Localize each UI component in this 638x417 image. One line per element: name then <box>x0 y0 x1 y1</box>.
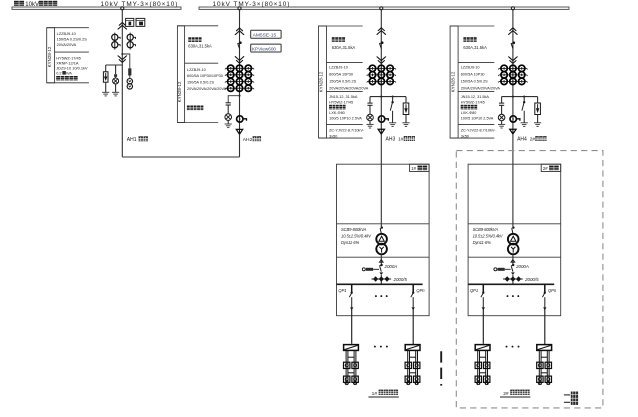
wire: AH3 down to unit box <box>380 134 382 164</box>
meter box 1 (voltmeter) <box>126 18 134 26</box>
label: phase 2 <box>564 394 570 396</box>
plug sockets <box>405 362 411 368</box>
svg-text:100/5 10P10 2.5VA: 100/5 10P10 2.5VA <box>461 117 494 121</box>
transformer T (T3) SCB9-800kVA <box>376 234 387 255</box>
LV busbar 0.4kV <box>337 283 423 285</box>
svg-text:AH2: AH2 <box>243 137 253 143</box>
fuse + indicator lamp branch <box>115 65 117 74</box>
node: bus2 tap for AH4 <box>511 7 514 10</box>
current transformers CT grid 3x4 AH2 <box>226 65 254 71</box>
node: bus2 tap for AH3 <box>380 7 383 10</box>
svg-text:QP1: QP1 <box>470 288 478 293</box>
bottom wheels <box>538 382 541 385</box>
svg-text:LXK-Φ80: LXK-Φ80 <box>461 111 477 115</box>
current transformers CT grid 3x3 AH3 <box>368 65 396 71</box>
wire: left branch AH2 <box>228 96 239 103</box>
LV drawout contact down <box>511 272 515 275</box>
operator attachment <box>362 268 365 271</box>
svg-text:150/5A 0.5/0.2S: 150/5A 0.5/0.2S <box>187 81 214 85</box>
indicator lamp AH2 <box>225 114 232 121</box>
tie bars <box>480 356 486 358</box>
svg-text:10kV TMY-3×(80×10): 10kV TMY-3×(80×10) <box>213 1 291 8</box>
wire: lower branch bar AH4 <box>502 96 538 98</box>
svg-text:KYN28-12: KYN28-12 <box>177 81 182 102</box>
svg-text:KPView600: KPView600 <box>252 46 277 51</box>
node: bus2 tap for AH2 <box>238 7 241 10</box>
LV feeder QPn <box>412 284 414 292</box>
drawout contact upper AH2 <box>235 28 244 35</box>
svg-text:630A,31.5kA: 630A,31.5kA <box>188 43 212 48</box>
capacitor (live-line indicator) AH3 <box>369 97 371 103</box>
current transformers CT grid 3x3 AH4 <box>499 65 527 71</box>
circuit breaker QF (AH4) <box>513 41 516 44</box>
divider (transformer section) <box>337 223 430 225</box>
divider (transformer section) <box>468 223 561 225</box>
tie bars <box>410 356 416 358</box>
svg-text:JN15-12, 31.5kA: JN15-12, 31.5kA <box>461 95 490 99</box>
spec box AH3 (KYN28-12) <box>319 26 327 138</box>
drawout contact upper AH3 <box>377 28 386 35</box>
svg-text:1#: 1# <box>411 166 416 171</box>
drawout contact (upper) AH1 <box>118 23 127 30</box>
svg-text:2#: 2# <box>543 166 548 171</box>
drawout contact (lower) AH1 <box>118 56 127 63</box>
svg-text:ZC-YJV22-8.7/10kV-: ZC-YJV22-8.7/10kV- <box>461 128 497 132</box>
surge arrester FV1 <box>105 65 107 72</box>
dots (more loads unit1) <box>374 346 376 348</box>
svg-text:3x50: 3x50 <box>329 134 337 138</box>
svg-text:Dyn11-6%: Dyn11-6% <box>473 240 492 245</box>
LV CTs 2000/5 <box>373 276 390 281</box>
dots (more feeders) <box>507 295 509 297</box>
svg-text:2000A: 2000A <box>384 264 398 269</box>
svg-text:2#: 2# <box>530 137 536 143</box>
load riser columns <box>478 350 488 384</box>
svg-text:KYN28-12: KYN28-12 <box>319 71 324 92</box>
svg-text:630A,31.5kA: 630A,31.5kA <box>332 45 356 50</box>
svg-text:LZZBJ9-10: LZZBJ9-10 <box>329 66 348 70</box>
load riser columns <box>408 350 418 384</box>
bottom wheels <box>345 382 348 385</box>
LV main breaker 2000A <box>512 264 514 266</box>
capacitor (live-line indicator) AH2 <box>226 102 231 104</box>
svg-text:LZZBJ9-10: LZZBJ9-10 <box>187 68 206 72</box>
voltage transformer (2-winding) <box>129 76 131 79</box>
voltage transformers PT group (2x2) AH1 <box>112 33 134 50</box>
surge arrester AH4 <box>537 97 539 103</box>
plug sockets <box>344 362 350 368</box>
zero sequence CT AH3 <box>378 116 384 122</box>
bus L1 10kV busbar section 1 <box>12 7 181 9</box>
LV CTs 2000/5 <box>505 276 522 281</box>
load isolator box <box>344 345 359 351</box>
svg-text:SCB9-800kVA: SCB9-800kVA <box>341 227 367 232</box>
surge arrester AH3 <box>405 97 407 103</box>
svg-text:AH4: AH4 <box>517 137 527 143</box>
svg-text:2000A: 2000A <box>515 264 529 269</box>
drawout contact lower AH2 <box>235 57 244 64</box>
svg-text:600/5A 10P30/10P30: 600/5A 10P30/10P30 <box>187 74 223 78</box>
svg-text:SCB9-800kVA: SCB9-800kVA <box>473 227 499 232</box>
spec box AH1 (KYN28-12) <box>47 28 55 83</box>
LV drawout contact up <box>380 254 382 264</box>
svg-text:QP1: QP1 <box>338 288 346 293</box>
svg-text:AH1: AH1 <box>127 137 137 143</box>
svg-text:HY5WZ-17/45: HY5WZ-17/45 <box>329 100 353 104</box>
svg-text:LZZBJ9-10: LZZBJ9-10 <box>57 31 77 36</box>
bus L2 10kV busbar section 2 <box>199 7 569 9</box>
protection relay label boxes <box>251 30 281 38</box>
svg-text:150/5A 0.5/0.2S: 150/5A 0.5/0.2S <box>329 80 356 84</box>
svg-text:1#: 1# <box>372 391 378 397</box>
spec box AH4 (KYN28-12) <box>450 26 458 138</box>
cable arrow AH4 <box>510 129 516 134</box>
svg-text:10kV: 10kV <box>25 2 39 8</box>
svg-text:JN15-12, 31.5kA: JN15-12, 31.5kA <box>329 95 358 99</box>
cable arrow AH3 <box>378 129 384 134</box>
LV feeder QP1 <box>482 284 484 292</box>
divider (LV section) <box>468 256 561 258</box>
svg-text:600/5A 10P30: 600/5A 10P30 <box>329 73 353 77</box>
unit box (AH3 substation unit) <box>337 164 430 316</box>
load isolator box <box>475 345 490 351</box>
indicator lamp (circle-X) <box>113 78 119 84</box>
earthing switch AH4 <box>523 97 525 102</box>
svg-text:10.5±2.5%/0.4kV: 10.5±2.5%/0.4kV <box>341 234 372 239</box>
unit label box <box>410 164 430 171</box>
svg-text:3x50: 3x50 <box>461 134 469 138</box>
svg-text:10kV TMY-3×(80×10): 10kV TMY-3×(80×10) <box>101 1 179 8</box>
svg-text:100/5 10P10 2.5VA: 100/5 10P10 2.5VA <box>329 117 362 121</box>
LV drawout contact up <box>512 254 514 264</box>
zero sequence CT AH4 <box>510 116 516 122</box>
svg-text:600/5A 10P30: 600/5A 10P30 <box>461 73 485 77</box>
wire: AH3 drop from bus2 <box>380 10 382 129</box>
ground AH2 branch <box>225 123 232 125</box>
fuse F1 (PT fuse) <box>128 68 131 75</box>
wire: cable run AH1 to AH2 <box>122 156 239 158</box>
spec box AH2 (KYN28-12) <box>177 26 184 123</box>
load isolator box <box>405 345 420 351</box>
wire: AH4 down to unit box <box>512 134 514 164</box>
bottom wheels <box>477 382 480 385</box>
svg-text:630A,31.5kA: 630A,31.5kA <box>463 45 487 50</box>
earthing switch AH3 <box>392 97 394 102</box>
ground (lamp) AH3 <box>366 123 373 125</box>
svg-text:150/5A 0.5/0.2S: 150/5A 0.5/0.2S <box>461 80 488 84</box>
drawout contact lower AH4 <box>509 57 518 64</box>
wire: left branch AH1 <box>106 64 123 66</box>
plug sockets <box>475 362 481 368</box>
svg-text:20VA/20VA: 20VA/20VA <box>57 42 77 47</box>
load riser columns <box>346 350 356 384</box>
svg-text:HY5WZ-17/45: HY5WZ-17/45 <box>461 100 485 104</box>
phase 2 dashed boundary <box>456 151 603 408</box>
tie bars <box>348 356 354 358</box>
svg-text:20VA/20VA/20VA/20VA: 20VA/20VA/20VA/20VA <box>187 87 227 91</box>
dots (more loads unit2) <box>506 346 508 348</box>
svg-text:20VA/20VA/20VA/20VA: 20VA/20VA/20VA/20VA <box>329 87 369 91</box>
svg-text:KYN28-12: KYN28-12 <box>47 46 52 67</box>
LV main breaker 2000A <box>380 264 382 266</box>
unit label box <box>541 164 561 171</box>
svg-text:2000/5: 2000/5 <box>524 277 539 282</box>
plug sockets <box>537 362 543 368</box>
LV feeder QPn <box>544 284 546 292</box>
svg-text:2#: 2# <box>503 391 509 397</box>
drawout contact upper AH4 <box>509 28 518 35</box>
wire: AH1 drop from bus1 <box>121 10 123 157</box>
svg-text:20VA/20VA/20VA/20VA: 20VA/20VA/20VA/20VA <box>461 87 501 91</box>
switch above transformer <box>512 164 514 227</box>
svg-text:KYN28-12: KYN28-12 <box>450 71 455 92</box>
node: AH1 branch junction <box>121 53 123 55</box>
drawout contact lower AH3 <box>377 57 386 64</box>
divider (LV section) <box>337 256 430 258</box>
switch above transformer <box>380 164 382 227</box>
ground (arrester) <box>102 91 109 93</box>
cable arrow AH2 <box>236 129 242 134</box>
load isolator box <box>537 345 552 351</box>
svg-text:10.5±2.5%/0.4kV: 10.5±2.5%/0.4kV <box>473 234 504 239</box>
wire: branch to PT fuse <box>122 54 130 68</box>
LV feeder QP1 <box>351 284 353 292</box>
circuit breaker QF (AH2) <box>239 41 242 44</box>
unit box (AH4 substation unit) <box>468 164 561 316</box>
indicator lamp AH4 <box>498 114 505 121</box>
capacitor (live-line indicator) AH4 <box>501 97 503 103</box>
svg-text:1#: 1# <box>398 137 404 143</box>
svg-text:LZZBJ9-10: LZZBJ9-10 <box>461 66 480 70</box>
indicator lamp AH3 <box>367 114 374 121</box>
wire: lower branch bar AH3 <box>370 96 406 98</box>
ground (lamp) AH4 <box>498 123 505 125</box>
transformer T (T4) SCB9-800kVA <box>508 234 519 255</box>
svg-text:ZC-YJV22-8.7/10kV-: ZC-YJV22-8.7/10kV- <box>329 128 365 132</box>
LV busbar 0.4kV <box>468 283 554 285</box>
tie bars <box>541 356 547 358</box>
circuit breaker QF (AH3) <box>381 41 384 44</box>
svg-text:150/5A 0.2S/0.2S: 150/5A 0.2S/0.2S <box>57 37 88 42</box>
meter box 2 (energy meter) <box>136 18 145 26</box>
svg-text:2000/5: 2000/5 <box>393 277 408 282</box>
svg-text:QPn: QPn <box>548 288 557 293</box>
svg-text:Dyn11-6%: Dyn11-6% <box>341 240 360 245</box>
operator attachment <box>494 268 497 271</box>
svg-text:QPn: QPn <box>416 288 425 293</box>
wire: AH2 drop from bus2 <box>239 10 241 129</box>
wire: AH4 drop from bus2 <box>512 10 514 129</box>
bottom wheels <box>407 382 410 385</box>
zero sequence CT AH2 <box>237 116 243 122</box>
label: incoming cable title <box>14 1 58 8</box>
node: bus1 tap for AH1 <box>121 7 124 10</box>
svg-text:LXK-Φ80: LXK-Φ80 <box>329 111 345 115</box>
load riser columns <box>539 350 549 384</box>
dots (more feeders) <box>375 295 377 297</box>
svg-text:AH3: AH3 <box>386 137 396 143</box>
break marks <box>440 351 442 385</box>
node: AH2 branch junction <box>238 95 240 97</box>
ground (lamp branch) <box>112 91 119 93</box>
LV drawout contact down <box>379 272 383 275</box>
svg-text:AM5SE-15: AM5SE-15 <box>253 33 277 39</box>
